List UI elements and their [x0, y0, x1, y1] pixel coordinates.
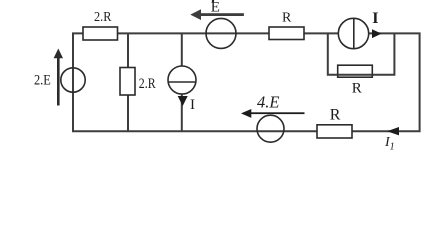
wire: branch with current source I	[181, 33, 183, 131]
source I (middle current source circle)	[168, 66, 196, 94]
resistor 2.R (top left, horizontal)	[83, 27, 118, 40]
source 4.E (bottom EMF, circle on wire)	[257, 115, 284, 142]
svg-text:2.R: 2.R	[139, 76, 156, 92]
resistor R (parallel, right)	[338, 65, 373, 77]
svg-text:E: E	[211, 0, 220, 16]
svg-text:R: R	[282, 11, 292, 26]
resistor R (top middle, horizontal)	[269, 27, 304, 40]
arrow: I (right, after top-right source)	[372, 29, 382, 38]
wire: parallel branch around resistor R (right)	[328, 33, 395, 74]
resistor R (bottom, horizontal)	[317, 125, 352, 138]
source I (top right current source circle)	[338, 18, 368, 48]
svg-text:I: I	[372, 10, 378, 27]
arrow: E direction (left)	[190, 9, 244, 20]
wire: segment across parallel resistor R	[338, 74, 373, 76]
svg-text:2.E: 2.E	[34, 72, 51, 88]
arrow: I (down, below middle source)	[178, 96, 188, 106]
svg-text:I: I	[190, 97, 195, 113]
svg-text:2.R: 2.R	[94, 10, 112, 25]
svg-text:4.E: 4.E	[257, 92, 279, 111]
arrow: 4.E direction (left)	[241, 109, 305, 118]
wire: outer loop top/right/bottom/left	[73, 33, 420, 131]
resistor 2.R (middle, vertical)	[120, 68, 135, 96]
svg-text:R: R	[330, 107, 341, 124]
arrow: 2.E direction (up)	[54, 49, 63, 106]
svg-text:R: R	[352, 81, 362, 97]
wire: branch with 2R resistor	[127, 33, 129, 131]
source 2.E (left EMF, circle on wire)	[61, 68, 85, 92]
source E (top middle EMF, circle on wire)	[206, 18, 236, 48]
arrow: I1 (left, bottom right wire)	[387, 127, 399, 135]
